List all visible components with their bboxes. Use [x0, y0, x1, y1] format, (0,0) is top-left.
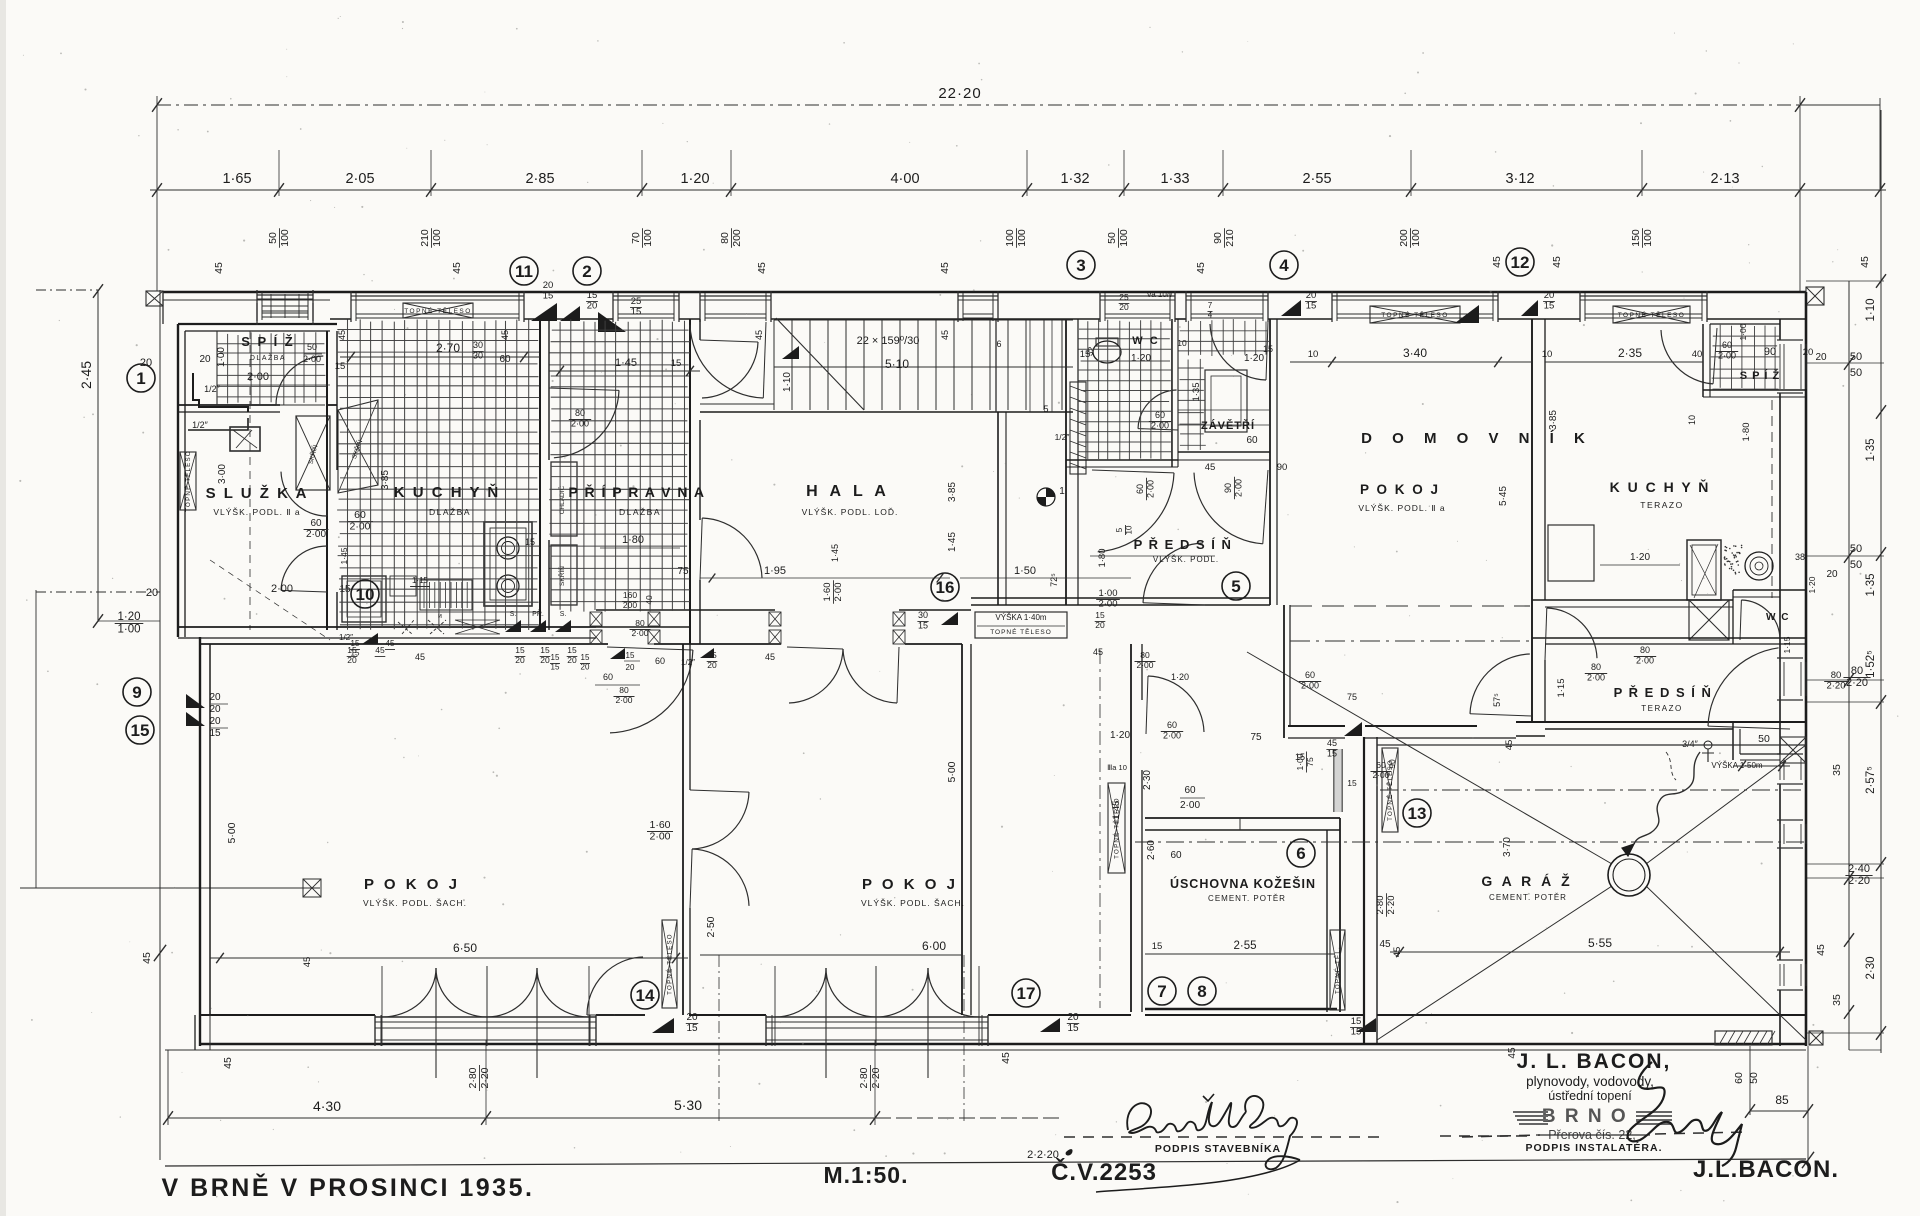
svg-text:160: 160 [623, 590, 637, 600]
circled number 16 [931, 573, 959, 601]
svg-text:20: 20 [199, 354, 211, 365]
door arc zavetri entry [1210, 324, 1266, 380]
dashed fixture row under kitchen [398, 620, 414, 634]
svg-text:15: 15 [567, 645, 577, 655]
svg-text:20: 20 [581, 662, 590, 671]
door jamb boxes interior wall [590, 612, 602, 626]
svg-text:3·85: 3·85 [1548, 410, 1559, 430]
svg-text:P Ř Í P R A V N A: P Ř Í P R A V N A [568, 483, 705, 500]
svg-text:1·35: 1·35 [1865, 438, 1877, 461]
svg-text:15: 15 [131, 721, 150, 740]
svg-text:20: 20 [587, 301, 598, 312]
circled number 12 [1506, 248, 1534, 276]
svg-text:B R N O ,: B R N O , [1542, 1106, 1642, 1127]
svg-text:TOPNÉ TĚL.: TOPNÉ TĚL. [1334, 946, 1342, 994]
svg-text:2·70: 2·70 [436, 341, 460, 355]
svg-text:1·80: 1·80 [1097, 548, 1108, 567]
wall right of zavetri [1269, 319, 1271, 605]
circled number 4 [1270, 251, 1298, 279]
svg-text:6·00: 6·00 [922, 939, 946, 953]
svg-text:1·45: 1·45 [830, 544, 840, 562]
svg-text:1·65: 1·65 [222, 171, 251, 187]
garage diagonals to drain [1247, 652, 1612, 864]
left lower boundary marks [20, 887, 320, 889]
predsin-right top wall [1532, 637, 1806, 639]
svg-text:TOPNÉ TĚLESO: TOPNÉ TĚLESO [990, 627, 1052, 636]
stair handrail line [774, 366, 1073, 368]
round boiler kuchyn-right [1745, 552, 1773, 580]
svg-text:1·20: 1·20 [1244, 353, 1264, 364]
wall left of WC column [1065, 319, 1067, 605]
uschovna bottom thick wall [1145, 1008, 1337, 1011]
wall V3 pripravna-hala [689, 319, 691, 644]
svg-text:plynovody, vodovody,: plynovody, vodovody, [1526, 1074, 1654, 1089]
svg-text:200: 200 [1398, 229, 1410, 247]
svg-text:20: 20 [209, 692, 221, 703]
svg-text:2·20: 2·20 [479, 1067, 491, 1088]
svg-text:2·60: 2·60 [1146, 840, 1157, 860]
door arc hala lower-left [702, 518, 762, 578]
svg-text:1/2″: 1/2″ [204, 384, 221, 394]
top dimension chain row [150, 189, 1886, 191]
predsin-left door arc 2 [1194, 473, 1263, 544]
stair side rail [774, 319, 1073, 321]
svg-text:60: 60 [1376, 760, 1386, 770]
circled number 2 [573, 257, 601, 285]
main interior wall below services [178, 626, 596, 628]
svg-text:20: 20 [543, 280, 554, 291]
svg-text:1·00: 1·00 [216, 347, 227, 367]
svg-text:1·45: 1·45 [615, 357, 637, 369]
svg-text:60: 60 [1155, 410, 1165, 420]
svg-text:2·00: 2·00 [1163, 730, 1181, 740]
svg-text:40: 40 [1692, 349, 1703, 360]
svg-text:M.1:50.: M.1:50. [824, 1162, 909, 1188]
svg-text:20: 20 [1095, 620, 1105, 630]
svg-text:1/2″: 1/2″ [192, 420, 209, 430]
svg-text:100: 100 [279, 229, 291, 247]
svg-text:TERAZO: TERAZO [1641, 704, 1682, 713]
wc-right walls [1733, 589, 1806, 591]
svg-text:1·32: 1·32 [1060, 171, 1089, 187]
svg-text:10: 10 [1125, 525, 1134, 534]
svg-text:5·30: 5·30 [674, 1097, 702, 1113]
svg-text:15: 15 [525, 537, 535, 547]
svg-text:1·20: 1·20 [1630, 552, 1650, 563]
radiator corridor [1108, 783, 1125, 873]
svg-text:50: 50 [1850, 543, 1862, 555]
svg-text:6: 6 [996, 339, 1001, 349]
svg-text:15: 15 [551, 662, 560, 671]
svg-text:45: 45 [1000, 1052, 1012, 1064]
tile hatch zavetri left strip [1187, 360, 1189, 451]
window right wall lower [1777, 959, 1803, 961]
WC bottom wall [1066, 459, 1178, 461]
left protrusion outer bits [162, 292, 164, 324]
svg-text:60: 60 [1167, 720, 1177, 730]
svg-text:45: 45 [213, 262, 225, 274]
svg-text:30: 30 [918, 610, 928, 620]
door arc kuchyn-right from spiz wall [1661, 330, 1713, 384]
pokoj-domovnik bottom wall [1288, 725, 1345, 727]
svg-text:2·00: 2·00 [1151, 420, 1169, 430]
shaft xbox next to wc-right [1689, 600, 1729, 640]
svg-text:100: 100 [1410, 229, 1422, 247]
svg-text:13: 13 [1408, 804, 1427, 823]
svg-text:20: 20 [1067, 1012, 1079, 1023]
svg-text:2·00: 2·00 [1098, 599, 1117, 610]
garage door wedge bottom-left [1356, 1018, 1376, 1032]
svg-text:P Ř E D S Í Ň: P Ř E D S Í Ň [1614, 685, 1713, 700]
svg-text:20: 20 [146, 587, 158, 599]
svg-text:15: 15 [671, 358, 682, 369]
cross fixture symbol under kitchen [455, 620, 500, 634]
tile hatch zavetri upper [1187, 321, 1189, 356]
dim kuchyn-right 2-35 [1545, 361, 1703, 363]
window WC facade [1099, 291, 1101, 322]
door arcs sluzka door [281, 472, 327, 516]
svg-text:10: 10 [1687, 415, 1697, 425]
svg-text:15: 15 [551, 653, 560, 662]
garage dash-dot level lines [1380, 789, 1806, 791]
uschovna top wall [1145, 817, 1340, 819]
svg-text:45: 45 [222, 1057, 234, 1069]
window right wall middle [1777, 753, 1803, 755]
dashed line sluzka [249, 331, 251, 630]
svg-text:45: 45 [754, 330, 764, 340]
svg-text:10: 10 [1177, 338, 1187, 348]
svg-text:25: 25 [631, 296, 642, 307]
bottom-left corner post [194, 1015, 196, 1050]
svg-text:D O M O V N Í K: D O M O V N Í K [1361, 430, 1593, 447]
svg-text:5: 5 [1115, 527, 1124, 532]
chimney shaft hatched [1070, 382, 1086, 474]
top-left survey box [146, 291, 163, 306]
svg-text:15: 15 [1347, 778, 1357, 788]
right inner vertical chain [1848, 281, 1850, 1050]
wedge near 13 [1344, 722, 1362, 736]
svg-text:1·60: 1·60 [822, 582, 833, 601]
bottom vertical reference dash lines [718, 955, 720, 1125]
circled number 1 [127, 364, 155, 392]
svg-text:4: 4 [1279, 256, 1289, 275]
svg-text:80: 80 [1640, 645, 1650, 655]
svg-text:210: 210 [419, 229, 431, 247]
svg-text:1·10: 1·10 [782, 372, 793, 392]
svg-text:15: 15 [209, 728, 221, 739]
bottom window group 1 pokoj1 [375, 1016, 596, 1018]
tile hatch kitchen [347, 319, 349, 629]
svg-text:45: 45 [386, 639, 395, 648]
svg-text:VÝŠKA 1·40m: VÝŠKA 1·40m [995, 613, 1046, 622]
spiz-left window detail [256, 303, 258, 325]
svg-text:50: 50 [1748, 1072, 1760, 1084]
wall under spiz-left [178, 404, 280, 406]
svg-text:Va 10/7: Va 10/7 [1147, 290, 1175, 299]
baseline rule above titles [165, 1159, 1806, 1166]
door arc predsin-right small [1547, 608, 1597, 658]
svg-text:5: 5 [1043, 404, 1048, 414]
svg-text:10: 10 [1542, 349, 1553, 360]
svg-text:45: 45 [337, 330, 347, 340]
svg-text:45: 45 [302, 957, 313, 968]
right side tie lines [1806, 280, 1884, 282]
svg-text:20: 20 [515, 655, 525, 665]
svg-text:1·50: 1·50 [1014, 565, 1036, 577]
svg-text:W C: W C [1766, 612, 1790, 623]
svg-text:K U C H Y Ň: K U C H Y Ň [394, 483, 500, 501]
door arc predsin-right to garage big [1708, 648, 1779, 726]
svg-text:75: 75 [677, 566, 689, 577]
svg-text:2·00: 2·00 [306, 529, 326, 540]
svg-text:3·85: 3·85 [380, 470, 391, 490]
svg-text:15: 15 [686, 1023, 698, 1034]
left facade wall of protrusion [177, 324, 179, 637]
radiator pokoj window [1370, 306, 1460, 323]
svg-text:2·00: 2·00 [1136, 660, 1153, 670]
svg-text:45: 45 [1551, 256, 1563, 268]
svg-text:2·00: 2·00 [1636, 655, 1654, 665]
svg-text:5·10: 5·10 [885, 357, 909, 371]
svg-text:45: 45 [451, 262, 463, 274]
svg-text:S.: S. [510, 611, 517, 618]
window W1 spiz-left facade [256, 290, 258, 321]
svg-text:90: 90 [1277, 462, 1288, 473]
svg-text:50: 50 [1850, 367, 1862, 379]
svg-text:100: 100 [1118, 229, 1130, 247]
svg-text:DLAŽBA: DLAŽBA [250, 353, 286, 362]
door arc spiz-left [276, 356, 323, 405]
svg-text:2·05: 2·05 [345, 171, 374, 187]
sluzka pipe chase thick L [193, 373, 248, 412]
circled number 6 [1287, 839, 1315, 867]
svg-text:15: 15 [626, 651, 635, 660]
svg-text:1·20: 1·20 [1131, 353, 1151, 364]
svg-text:S L U Ž K A: S L U Ž K A [206, 484, 309, 502]
svg-text:15: 15 [1306, 301, 1317, 312]
svg-text:100: 100 [1642, 229, 1654, 247]
svg-text:1·33: 1·33 [1160, 171, 1189, 187]
svg-text:V BRNĚ V PROSINCI 1935.: V BRNĚ V PROSINCI 1935. [162, 1172, 535, 1202]
svg-text:80: 80 [1831, 670, 1842, 681]
svg-text:50: 50 [1106, 232, 1118, 244]
predsin-left bottom wall [971, 597, 1131, 599]
garage bottom window [1715, 1031, 1772, 1045]
svg-text:2·2·20: 2·2·20 [1027, 1149, 1059, 1161]
svg-text:15: 15 [1263, 344, 1273, 354]
svg-text:15: 15 [335, 361, 346, 372]
dashed ceiling lines pokoj-domovnik [1290, 605, 1530, 607]
kitchen small fixtures bottom [390, 576, 416, 596]
svg-text:14: 14 [636, 986, 655, 1005]
svg-text:2·00: 2·00 [1234, 479, 1244, 497]
svg-text:45: 45 [1205, 462, 1216, 473]
svg-text:60: 60 [499, 354, 511, 365]
svg-text:60: 60 [1733, 1072, 1745, 1084]
svg-text:5·55: 5·55 [1588, 936, 1612, 950]
dashed guide lines predsin-right to garage [1666, 752, 1676, 780]
svg-text:2: 2 [582, 262, 591, 281]
svg-text:S.: S. [560, 611, 567, 618]
svg-text:2·57⁵: 2·57⁵ [1865, 766, 1877, 794]
wall V2 kuchyn-pripravna [539, 319, 541, 630]
kitchen stove block [484, 522, 532, 606]
left wall pokoj1 [199, 637, 201, 1046]
svg-text:45: 45 [500, 330, 510, 340]
svg-text:2·00: 2·00 [271, 583, 293, 595]
svg-text:9: 9 [132, 683, 141, 702]
window right wall garage upper [1777, 819, 1803, 821]
uschovna right wall [1326, 830, 1328, 1012]
right facade wall [1805, 292, 1808, 1046]
bottom window group 2 pokoj2 [766, 1016, 988, 1018]
svg-text:20: 20 [1119, 302, 1129, 312]
spiz-right left wall [1702, 324, 1704, 397]
svg-text:75: 75 [1347, 692, 1357, 702]
protrusion top wall spiz-left [178, 323, 337, 325]
wall divider pokoj1-pokoj2 [682, 644, 684, 1015]
svg-text:ústřední topení: ústřední topení [1548, 1089, 1632, 1103]
svg-text:20: 20 [686, 1012, 698, 1023]
radiator window valve between pokoj1 and pokoj2 walls [662, 920, 677, 1008]
staircase treads [773, 320, 775, 410]
svg-text:15: 15 [1152, 941, 1163, 952]
svg-text:6: 6 [1296, 844, 1305, 863]
svg-text:150: 150 [1630, 229, 1642, 247]
tile hatch pripravna [559, 322, 561, 610]
svg-text:45: 45 [756, 262, 768, 274]
hala right wall [997, 412, 999, 605]
window kuchyn-right facade [1579, 291, 1581, 322]
svg-text:15: 15 [540, 645, 550, 655]
svg-text:15: 15 [587, 290, 598, 301]
svg-text:45: 45 [1504, 740, 1515, 751]
svg-text:W C: W C [1132, 335, 1159, 347]
svg-text:H A L A: H A L A [806, 483, 890, 500]
window domovnik pokoj facade [1331, 291, 1333, 322]
svg-text:3·70: 3·70 [1502, 837, 1513, 857]
svg-text:TOPNÉ TĚLESO: TOPNÉ TĚLESO [666, 933, 674, 995]
double door pokoj1-pokoj2 [692, 792, 749, 849]
svg-text:1·15: 1·15 [1556, 678, 1567, 697]
svg-text:2·13: 2·13 [1710, 171, 1739, 187]
svg-text:100: 100 [1004, 229, 1016, 247]
svg-text:5·45: 5·45 [1498, 486, 1509, 506]
tile hatch wc [1087, 321, 1089, 459]
svg-text:PODPIS STAVEBNÍKA: PODPIS STAVEBNÍKA [1155, 1142, 1281, 1155]
svg-text:20: 20 [1815, 352, 1827, 363]
svg-text:90: 90 [1387, 759, 1397, 769]
circled number 9 [123, 678, 151, 706]
svg-text:15: 15 [1067, 1023, 1079, 1034]
window right wall predsin [1777, 657, 1803, 659]
svg-text:5·00: 5·00 [946, 761, 958, 782]
circled number 13 [1403, 799, 1431, 827]
svg-text:2·00: 2·00 [303, 354, 321, 364]
wc-right door arc [1741, 600, 1780, 637]
radiator in kitchen window [403, 303, 473, 318]
svg-text:17: 17 [1017, 984, 1036, 1003]
svg-text:Ⅲa 10: Ⅲa 10 [1107, 763, 1127, 772]
svg-text:72⁵: 72⁵ [1049, 573, 1059, 587]
svg-text:S P Í Ž: S P Í Ž [241, 334, 295, 349]
right outer vertical chain [1880, 110, 1882, 1053]
right wall pokoj2 [961, 644, 963, 1015]
svg-text:15: 15 [631, 307, 642, 318]
top facade wall outer line [163, 291, 1806, 294]
speckle area left of boiler [1729, 548, 1731, 550]
wardrobe xbox sluzka [296, 416, 330, 490]
svg-text:50: 50 [307, 342, 317, 352]
corridor axis dash-dot [1099, 650, 1101, 1008]
svg-text:2·20: 2·20 [1848, 875, 1870, 887]
double door arcs pokoj2 top [789, 649, 843, 703]
svg-text:15: 15 [1327, 748, 1337, 758]
svg-text:1·35: 1·35 [1865, 573, 1877, 596]
door predsin-right from pokoj-dom [1470, 654, 1530, 714]
svg-text:2·00: 2·00 [1146, 480, 1156, 498]
svg-text:1·00: 1·00 [1738, 323, 1748, 340]
svg-text:45: 45 [939, 262, 951, 274]
svg-text:60: 60 [1722, 340, 1732, 350]
circled number 5 [1222, 572, 1250, 600]
circled number 17 [1012, 979, 1040, 1007]
signature Arnost Weg [1127, 1102, 1212, 1133]
svg-text:ÚSCHOVNA KOŽEŠIN: ÚSCHOVNA KOŽEŠIN [1170, 876, 1316, 891]
svg-text:VLÝŠK. PODL. Ⅱ a: VLÝŠK. PODL. Ⅱ a [213, 507, 300, 517]
svg-text:80: 80 [1851, 665, 1863, 677]
pokoj-domovnik left wall lower part [1283, 605, 1285, 738]
radiator garage-left wall [1382, 748, 1398, 832]
svg-text:и: и [438, 613, 442, 620]
garage top boundary line [1377, 744, 1806, 746]
overall top dimension line 22-20 [157, 104, 1800, 106]
svg-text:VLÝŠK. PODL. LOĎ.: VLÝŠK. PODL. LOĎ. [802, 507, 899, 517]
bottom small wedge cluster kitchen [362, 633, 378, 644]
svg-text:2·00: 2·00 [615, 695, 632, 705]
scan noise speckles [1687, 851, 1688, 852]
svg-text:60: 60 [1184, 785, 1196, 796]
window W3 facade [612, 291, 614, 322]
zavetri bottom wall [1178, 451, 1270, 453]
svg-text:200: 200 [731, 229, 743, 247]
black wedge near 16 [941, 612, 958, 625]
svg-text:80: 80 [575, 408, 585, 418]
svg-text:100: 100 [431, 229, 443, 247]
svg-text:J.L.BACON.: J.L.BACON. [1693, 1156, 1839, 1183]
svg-text:1: 1 [136, 369, 145, 388]
svg-text:15: 15 [581, 653, 590, 662]
svg-text:2·30: 2·30 [1142, 770, 1153, 790]
svg-text:45: 45 [415, 652, 425, 662]
svg-text:1·45: 1·45 [1111, 800, 1122, 819]
sluzka picture table [230, 427, 260, 451]
long interior chain line y958 right part [1145, 957, 1334, 959]
svg-text:5·00: 5·00 [226, 822, 238, 843]
svg-text:100: 100 [642, 229, 654, 247]
svg-text:2·00: 2·00 [1372, 770, 1389, 780]
svg-text:1/2″: 1/2″ [681, 658, 695, 667]
svg-text:VLÝŠK. PODL. ŠACH.: VLÝŠK. PODL. ŠACH. [861, 898, 965, 908]
svg-text:2·20: 2·20 [870, 1067, 882, 1088]
svg-text:15: 15 [1095, 610, 1105, 620]
svg-text:2·55: 2·55 [1233, 940, 1256, 952]
svg-text:45: 45 [1859, 256, 1871, 268]
svg-text:15: 15 [1080, 349, 1091, 360]
circled number 11 [510, 257, 538, 285]
window stair-right facade [957, 291, 959, 322]
svg-text:1·60: 1·60 [649, 819, 670, 831]
